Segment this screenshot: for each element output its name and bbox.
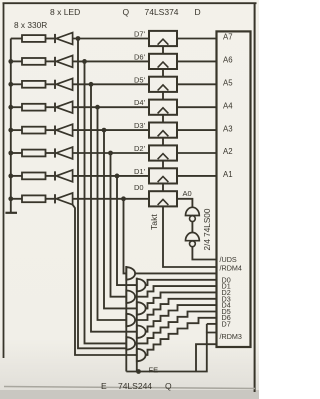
svg-text:FE: FE (149, 366, 159, 375)
svg-text:D7': D7' (134, 30, 146, 39)
svg-text:2/4 74LS00: 2/4 74LS00 (203, 208, 212, 250)
svg-text:/RDM4: /RDM4 (220, 263, 242, 272)
svg-text:A7: A7 (223, 33, 233, 42)
svg-text:A6: A6 (223, 56, 233, 65)
svg-text:A0: A0 (183, 189, 192, 198)
svg-text:8 x 330R: 8 x 330R (14, 20, 47, 30)
svg-text:74LS374: 74LS374 (145, 7, 179, 17)
svg-text:D5': D5' (134, 75, 146, 84)
svg-text:A5: A5 (223, 79, 233, 88)
svg-text:D0: D0 (134, 183, 144, 192)
svg-text:A4: A4 (223, 101, 233, 110)
svg-text:D2': D2' (134, 144, 146, 153)
svg-text:Q: Q (123, 7, 130, 17)
svg-text:/RDM3: /RDM3 (220, 332, 242, 341)
svg-text:8 x LED: 8 x LED (50, 7, 80, 17)
svg-text:D3': D3' (134, 121, 146, 130)
svg-text:D7: D7 (222, 320, 231, 329)
svg-text:D1': D1' (134, 167, 146, 176)
svg-text:A2: A2 (223, 147, 233, 156)
svg-text:D6': D6' (134, 52, 146, 61)
svg-text:A1: A1 (223, 170, 233, 179)
svg-text:D: D (195, 7, 201, 17)
svg-text:74LS244: 74LS244 (118, 381, 152, 391)
svg-text:D4': D4' (134, 98, 146, 107)
svg-text:E: E (101, 381, 107, 391)
svg-text:Takt: Takt (149, 214, 159, 230)
svg-text:Q: Q (165, 381, 172, 391)
svg-text:A3: A3 (223, 124, 233, 133)
